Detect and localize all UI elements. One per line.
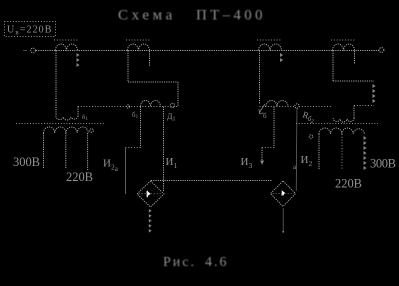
wire: stub under W4 bbox=[354, 51, 356, 64]
terminal circle right of arcs bbox=[90, 129, 94, 133]
wire: stub arrows under W3 bbox=[280, 53, 283, 62]
winding: right feedback (shallow arcs y~119) bbox=[333, 118, 354, 122]
wire: vertical x297 down to T2 bbox=[295, 108, 298, 191]
wire: stub arrows under W1 bbox=[77, 53, 80, 67]
svg-text:б: б bbox=[263, 112, 267, 120]
label 220V left bbox=[66, 170, 93, 184]
wire: riser x78 to base line bbox=[77, 107, 79, 117]
wire: stub under W2 bbox=[149, 51, 151, 66]
wire: below T1 bbox=[149, 209, 152, 233]
label 300V left bbox=[13, 155, 40, 169]
label b1 subscript bbox=[132, 111, 139, 120]
winding: right base drive (2 arcs) bbox=[266, 101, 288, 107]
wire: right output legs bbox=[318, 134, 320, 169]
svg-text:220В: 220В bbox=[335, 177, 362, 191]
wire: right base line y106.5 bbox=[260, 106, 295, 108]
label I2 right bbox=[301, 154, 313, 168]
label 220V right bbox=[335, 177, 362, 191]
wire: horizontal y147.5 right side bbox=[262, 147, 274, 149]
svg-text:220В: 220В bbox=[66, 170, 93, 184]
junction circle right (172.5,105.5) bbox=[170, 103, 174, 107]
winding W1 (collector, left outer) bbox=[54, 40, 78, 51]
svg-text:300В: 300В bbox=[13, 155, 40, 169]
wire: horizontal y82 bbox=[128, 81, 178, 83]
wire: below T2 bbox=[282, 208, 284, 231]
winding W3 (collector, right inner) bbox=[257, 40, 282, 51]
transistor T1 diamond bbox=[137, 181, 164, 207]
input label box Uв=220В bbox=[5, 22, 56, 37]
wire: W4 left end down bbox=[332, 51, 334, 82]
label 300V right bbox=[370, 157, 396, 171]
junction small circle on base line bbox=[126, 105, 129, 108]
label I3 bbox=[241, 156, 253, 170]
winding W4 (collector, right outer) bbox=[331, 40, 355, 51]
svg-text:ПТ–400: ПТ–400 bbox=[196, 8, 266, 24]
wire: main top bus bbox=[36, 50, 379, 52]
wire: vertical x262 with arrow bbox=[261, 148, 263, 162]
wire: right output right leg (chevron marks) bbox=[364, 136, 367, 170]
label а subscript near node x297 bbox=[293, 163, 297, 171]
wire: vertical from W1 left end down to left feedback winding bbox=[55, 51, 57, 117]
right core dashed line bbox=[296, 123, 378, 125]
junction squiggle / label near (262,108) bbox=[259, 104, 265, 114]
label Rb2 bbox=[301, 109, 317, 125]
wire: left output legs bbox=[43, 133, 45, 169]
wire: W2 left end down bbox=[127, 51, 129, 83]
caption "Рис. 4.6" bbox=[163, 255, 229, 270]
svg-text:300В: 300В bbox=[370, 157, 396, 171]
wire: left drive leg A down bbox=[140, 107, 142, 148]
wire: left drive leg B down to transistor bbox=[163, 107, 165, 193]
wire: vertical x178 down bbox=[177, 82, 179, 106]
wire: middle horizontal y180.5 between transistors bbox=[151, 180, 272, 182]
junction circle (297,106) bbox=[295, 104, 299, 108]
winding: left feedback (shallow arcs at y~117) bbox=[56, 116, 78, 120]
wire: horizontal y147.5 bbox=[126, 147, 141, 149]
wire: left base line y106 bbox=[78, 106, 178, 108]
transistor T2 diamond bbox=[271, 181, 296, 207]
svg-text:Uв=220В: Uв=220В bbox=[7, 25, 53, 37]
wire: vertical x354 down bbox=[353, 106, 355, 119]
label a1 subscript under circle bbox=[167, 112, 175, 123]
left input terminal bbox=[31, 48, 36, 53]
label I2a bbox=[103, 158, 119, 174]
title "Схема ПТ-400" bbox=[118, 8, 266, 24]
wire: horizontal y105.5 bbox=[354, 105, 374, 107]
winding: left output secondary (4 arcs) bbox=[44, 127, 89, 133]
svg-text:4.6: 4.6 bbox=[205, 255, 229, 270]
winding: left base drive (2 arcs on base line) bbox=[141, 101, 161, 107]
label I1 bbox=[166, 156, 178, 170]
wire: horizontal y81 bbox=[333, 80, 374, 82]
right input terminal bbox=[379, 48, 384, 53]
wire: dotted continuation y106.5 bbox=[299, 106, 331, 108]
wire: vertical x125.5 down bbox=[125, 148, 127, 195]
wire: W3 left end down to right base line bbox=[259, 51, 261, 105]
terminal circle left of arcs bbox=[309, 135, 313, 139]
wire: right drive leg down bbox=[273, 107, 275, 148]
svg-text:Схема: Схема bbox=[118, 8, 176, 24]
winding W2 (collector, left inner) bbox=[126, 40, 151, 51]
left core dashed line bbox=[16, 123, 105, 125]
svg-text:Рис.: Рис. bbox=[163, 255, 196, 270]
wire: vertical x374 (chevrons) bbox=[373, 84, 376, 103]
winding: right output secondary (4 arcs) bbox=[319, 128, 364, 134]
